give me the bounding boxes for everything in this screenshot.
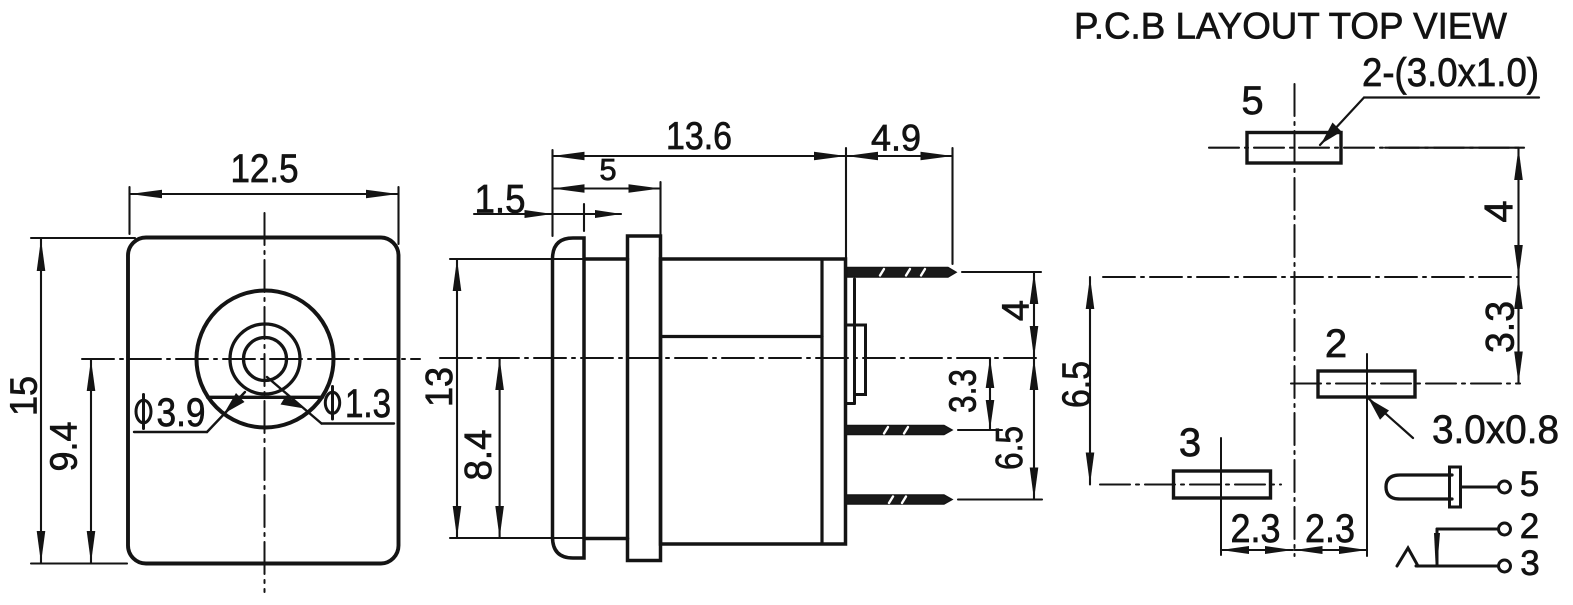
dim 13 extension lines bbox=[450, 258, 584, 260]
pin5 terminal wire bbox=[1461, 486, 1498, 489]
svg-text:8.4: 8.4 bbox=[458, 430, 500, 481]
dim 5 extension right bbox=[659, 182, 661, 234]
flat key chord bbox=[208, 396, 323, 399]
dim 5 line bbox=[553, 187, 661, 189]
dim 13.6 extension left bbox=[551, 150, 553, 236]
svg-text:3: 3 bbox=[1179, 421, 1201, 465]
pin2 tip extension bbox=[958, 429, 1002, 431]
svg-text:5: 5 bbox=[599, 152, 616, 187]
pin 2 (middle) bbox=[846, 426, 952, 435]
svg-text:3.9: 3.9 bbox=[157, 391, 206, 435]
svg-text:3.0x0.8: 3.0x0.8 bbox=[1432, 408, 1559, 452]
pad5 horizontal centerline bbox=[1209, 147, 1524, 149]
svg-text:15: 15 bbox=[3, 376, 45, 416]
svg-text:P.C.B LAYOUT TOP VIEW: P.C.B LAYOUT TOP VIEW bbox=[1074, 6, 1507, 47]
dim 13.6 line bbox=[553, 155, 847, 157]
label phi3.9 underline and leader bbox=[134, 431, 207, 433]
dim 4 line (pcb) bbox=[1517, 148, 1519, 277]
dim 4 text (side) bbox=[996, 300, 1038, 321]
dim 4.9 line bbox=[846, 155, 953, 157]
dim 15 extension lines bbox=[31, 237, 135, 239]
pin2 terminal wire bbox=[1437, 528, 1497, 531]
vertical centerline bbox=[1294, 84, 1296, 556]
label phi1.3 symbol bbox=[325, 392, 339, 413]
dim 6.5 line (pcb) bbox=[1089, 277, 1091, 485]
switch contact arm bbox=[1436, 529, 1439, 566]
dim 6.5 text (pcb) bbox=[1055, 361, 1099, 408]
dim 8.4 line bbox=[499, 358, 501, 538]
pad 2 tick line bbox=[1366, 354, 1368, 556]
pin5 barrel symbol bbox=[1386, 475, 1452, 499]
pad2 horizontal centerline bbox=[1291, 382, 1520, 384]
dim 4 text (pcb) bbox=[1477, 200, 1521, 222]
svg-text:3: 3 bbox=[1520, 544, 1539, 583]
middle circle (phi 3.9) bbox=[230, 324, 300, 394]
dim 4 extension (top) bbox=[1385, 147, 1524, 149]
hex nut bbox=[628, 236, 661, 561]
svg-text:4: 4 bbox=[1477, 200, 1521, 222]
pin3 terminal circle bbox=[1499, 560, 1511, 572]
svg-text:5: 5 bbox=[1241, 79, 1263, 123]
pad 2 bbox=[1318, 371, 1415, 397]
pin5 terminal circle bbox=[1499, 481, 1511, 493]
front washer bbox=[553, 238, 585, 558]
dim 2.3 right line bbox=[1295, 549, 1368, 551]
dim 3.3 text (pcb) bbox=[1479, 301, 1523, 353]
svg-text:2.3: 2.3 bbox=[1231, 507, 1281, 551]
dim 13 line bbox=[456, 259, 458, 538]
pin5 bend strip bbox=[853, 279, 856, 404]
svg-text:2-(3.0x1.0): 2-(3.0x1.0) bbox=[1362, 51, 1539, 95]
barrel top line bbox=[584, 257, 628, 261]
dim 12.5 line bbox=[130, 193, 398, 195]
pin 3 (bottom) bbox=[846, 495, 952, 504]
jack body front outline bbox=[128, 238, 399, 564]
dim 13.6/4.9 extension middle bbox=[845, 148, 847, 268]
dim 1.5 line bbox=[474, 213, 621, 215]
side view centerline bbox=[440, 357, 1041, 359]
label phi3.9 symbol bbox=[136, 400, 151, 423]
dim 9.4 line bbox=[90, 360, 92, 563]
pin3 tip extension bbox=[958, 498, 1042, 500]
barrel bottom line bbox=[584, 537, 628, 541]
dim 6.5 line (side) bbox=[1033, 358, 1035, 500]
dim 9.4 text bbox=[44, 422, 86, 472]
pad 3 bbox=[1174, 471, 1271, 498]
body internal line bbox=[662, 335, 822, 338]
dim 3.3 line (side) bbox=[989, 358, 991, 430]
main body bbox=[661, 259, 846, 544]
pin3 spring contact bbox=[1397, 548, 1418, 566]
svg-text:5: 5 bbox=[1520, 465, 1539, 504]
dim 12.5 extension lines bbox=[128, 187, 130, 234]
svg-text:1.5: 1.5 bbox=[475, 178, 526, 222]
side tab bbox=[846, 325, 866, 395]
svg-text:4.9: 4.9 bbox=[871, 118, 921, 159]
dim 1.5 tick bbox=[583, 204, 585, 231]
svg-text:13.6: 13.6 bbox=[666, 115, 732, 158]
pin 5 (top) bbox=[847, 268, 956, 278]
pad3 horizontal centerline bbox=[1100, 483, 1281, 485]
label 2-(3.0x1.0) underline and leader bbox=[1364, 96, 1539, 98]
pad 5 bbox=[1247, 133, 1341, 164]
main horizontal centerline bbox=[1103, 276, 1518, 278]
dim 3.3 line (pcb) bbox=[1517, 277, 1519, 384]
svg-text:2: 2 bbox=[1325, 322, 1347, 366]
dim 8.4 text bbox=[458, 430, 500, 481]
horizontal centerline bbox=[82, 358, 420, 360]
svg-text:9.4: 9.4 bbox=[44, 422, 86, 472]
dim 4.9 extension right bbox=[951, 148, 953, 264]
dim 4 line (side) bbox=[1033, 272, 1035, 358]
dim 15 text bbox=[3, 376, 45, 416]
pin5 tip extension bbox=[962, 271, 1041, 273]
vertical centerline bbox=[264, 213, 266, 592]
svg-text:6.5: 6.5 bbox=[1055, 361, 1099, 408]
pad 3 tick line bbox=[1220, 438, 1222, 555]
svg-text:13: 13 bbox=[419, 367, 461, 407]
pin2 terminal circle bbox=[1499, 523, 1511, 535]
rear cap line bbox=[820, 260, 823, 543]
center pin circle (phi 1.3) bbox=[244, 338, 287, 381]
svg-text:4: 4 bbox=[996, 300, 1038, 321]
dim 3.3 text (side) bbox=[943, 369, 985, 413]
dim 15 line bbox=[40, 239, 42, 563]
outer barrel circle bbox=[197, 291, 334, 428]
dim 6.5 text (side) bbox=[989, 426, 1031, 470]
svg-text:12.5: 12.5 bbox=[231, 147, 299, 191]
svg-text:1.3: 1.3 bbox=[345, 382, 391, 426]
svg-text:3.3: 3.3 bbox=[1479, 301, 1523, 353]
svg-text:2.3: 2.3 bbox=[1305, 507, 1355, 551]
pin5 flange bar bbox=[1450, 467, 1461, 507]
svg-text:2: 2 bbox=[1520, 507, 1539, 546]
label phi1.3 underline and leader bbox=[322, 422, 395, 424]
label 3.0x0.8 leader bbox=[1368, 398, 1413, 438]
svg-text:3.3: 3.3 bbox=[943, 369, 985, 413]
pin3 terminal wire bbox=[1416, 565, 1497, 568]
dim 13 text bbox=[419, 367, 461, 407]
dim 2.3 left line bbox=[1221, 549, 1293, 551]
svg-text:6.5: 6.5 bbox=[989, 426, 1031, 470]
